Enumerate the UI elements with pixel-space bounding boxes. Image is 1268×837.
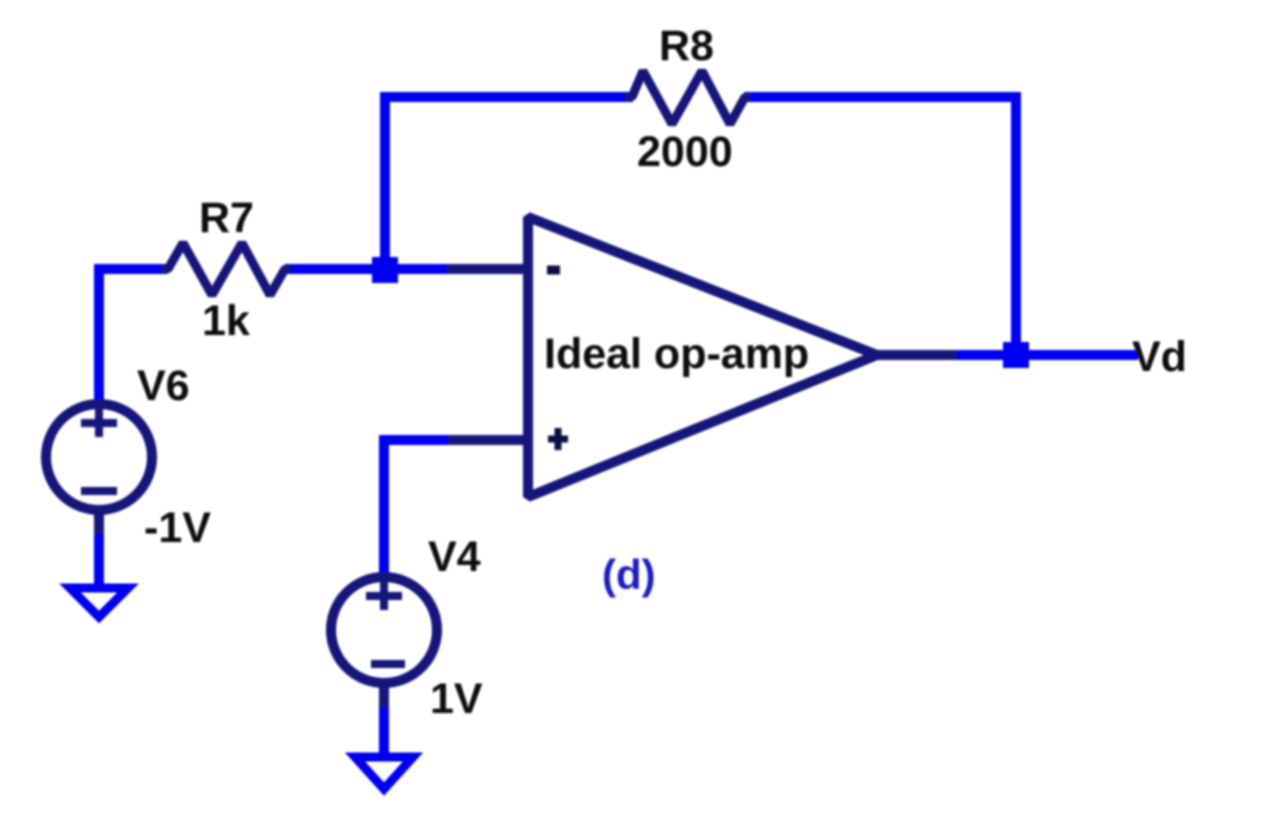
- svg-text:Ideal op-amp: Ideal op-amp: [544, 330, 809, 378]
- svg-text:R8: R8: [659, 22, 714, 70]
- svg-text:(d): (d): [602, 551, 656, 598]
- svg-text:V4: V4: [428, 533, 481, 581]
- svg-text:1k: 1k: [202, 297, 250, 345]
- svg-text:-1V: -1V: [144, 504, 211, 552]
- svg-text:2000: 2000: [637, 128, 733, 176]
- svg-text:Vd: Vd: [1132, 333, 1187, 381]
- svg-text:1V: 1V: [430, 675, 483, 723]
- svg-text:R7: R7: [199, 194, 254, 242]
- svg-text:V6: V6: [137, 362, 190, 410]
